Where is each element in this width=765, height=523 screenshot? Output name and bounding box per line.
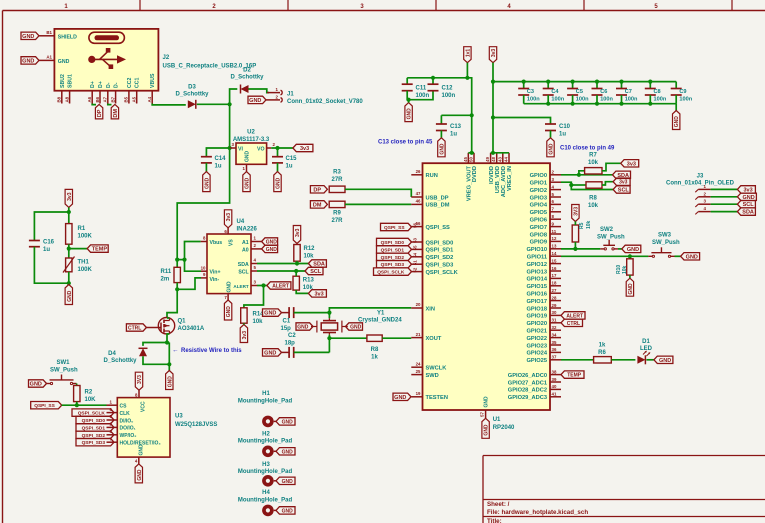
svg-text:GPIO26_ADC0: GPIO26_ADC0	[508, 373, 547, 379]
svg-text:44: 44	[504, 157, 509, 162]
svg-text:3v3: 3v3	[226, 213, 232, 222]
U3 pin 8 VCC with 3V3 label	[138, 390, 140, 397]
U4 pin 8 Vbus	[201, 241, 207, 243]
svg-text:USB_DP: USB_DP	[426, 195, 449, 201]
svg-text:GPIO10: GPIO10	[526, 247, 547, 253]
global label GND below TH1	[65, 285, 72, 305]
wire crystal bottom to XOUT net	[328, 335, 330, 353]
svg-text:GND: GND	[282, 479, 294, 485]
svg-text:SDA: SDA	[742, 210, 754, 216]
svg-text:R12: R12	[304, 246, 316, 252]
node R11 top branch	[175, 258, 179, 262]
svg-text:R9: R9	[333, 211, 341, 217]
svg-text:GPIO28_ADC2: GPIO28_ADC2	[508, 388, 547, 394]
node 3v3 branch	[67, 210, 71, 214]
svg-text:GPIO17: GPIO17	[526, 299, 547, 305]
global label GND at crystal right	[346, 323, 363, 330]
resistor R13 10k SCL pullup	[293, 276, 299, 290]
svg-text:XOUT: XOUT	[426, 336, 442, 342]
svg-text:MountingHole_Pad: MountingHole_Pad	[238, 469, 293, 475]
global label 3v3 above R1	[65, 189, 72, 207]
svg-text:QSPI_SD3: QSPI_SD3	[82, 440, 106, 446]
svg-text:GND: GND	[139, 444, 145, 456]
svg-text:LED: LED	[640, 346, 653, 352]
svg-text:GPIO13: GPIO13	[526, 269, 547, 275]
svg-text:D-: D-	[106, 82, 112, 88]
node C1 crystal junction	[327, 311, 331, 315]
diode D4 D_Schottky flyback	[139, 348, 147, 356]
svg-text:28: 28	[552, 295, 557, 300]
svg-text:VO: VO	[257, 147, 265, 153]
svg-text:10k: 10k	[586, 220, 592, 229]
wire GPIO1 to SCL	[561, 182, 613, 189]
svg-text:GPIO7: GPIO7	[530, 225, 547, 231]
svg-text:56: 56	[413, 223, 418, 228]
svg-text:GPIO12: GPIO12	[526, 262, 547, 268]
global label QSPI_SD1 at U1	[377, 246, 412, 253]
svg-text:GND: GND	[226, 306, 232, 318]
svg-text:11: 11	[552, 229, 557, 234]
svg-text:CTRL: CTRL	[128, 326, 141, 332]
U4 pin 3 ALERT	[251, 285, 257, 287]
global label SDA from U4	[308, 260, 326, 267]
global label SCL from U4	[305, 267, 323, 274]
svg-text:GND: GND	[394, 395, 406, 401]
global label GND at SW3	[681, 253, 700, 260]
svg-text:ALERT: ALERT	[272, 284, 289, 290]
svg-text:GND: GND	[407, 108, 413, 120]
svg-text:C8: C8	[654, 89, 661, 95]
svg-text:39: 39	[552, 377, 557, 382]
wire R7 to 3v3	[602, 163, 621, 171]
svg-text:GPIO4: GPIO4	[530, 203, 548, 209]
svg-text:R8: R8	[589, 196, 597, 202]
svg-text:GPIO1: GPIO1	[530, 181, 547, 187]
svg-text:10k: 10k	[304, 254, 315, 260]
svg-text:10K: 10K	[85, 397, 97, 403]
svg-text:1u: 1u	[286, 164, 293, 170]
power label 3v3 top	[489, 47, 496, 63]
svg-text:GPIO27_ADC1: GPIO27_ADC1	[508, 380, 547, 386]
connector J1 Conn_01x02_Socket	[267, 92, 280, 94]
J2 bottom pins SBU2 SBU1 D+ D+ D- D- CC2 CC1 VBUS	[61, 91, 63, 104]
wire R11 top to Vbus pin and Vin+	[177, 259, 184, 261]
svg-text:SWD: SWD	[426, 373, 439, 379]
node R11 bottom branch	[175, 287, 179, 291]
svg-text:100n: 100n	[576, 97, 589, 103]
svg-text:IOVDD: IOVDD	[489, 166, 495, 184]
svg-text:GND: GND	[282, 508, 294, 514]
svg-text:GPIO6: GPIO6	[530, 218, 547, 224]
svg-text:AO3401A: AO3401A	[178, 326, 205, 332]
node R8 on GPIO1	[569, 183, 573, 187]
U4 pin 6 VS with 3v3 label	[227, 228, 229, 234]
U1 top power pins	[467, 153, 469, 163]
svg-text:GPIO14: GPIO14	[526, 277, 547, 283]
svg-text:GPIO8: GPIO8	[530, 232, 547, 238]
svg-text:Resistive Wire to this: Resistive Wire to this	[181, 348, 242, 354]
svg-text:GND: GND	[264, 311, 276, 317]
svg-text:VBUS: VBUS	[150, 73, 156, 88]
svg-text:10k: 10k	[588, 203, 599, 209]
svg-text:GND: GND	[22, 34, 34, 40]
svg-text:←: ←	[172, 347, 179, 354]
svg-text:100n: 100n	[625, 97, 638, 103]
svg-text:B5: B5	[124, 96, 129, 102]
wire R13 to 3v3	[296, 290, 308, 293]
svg-text:A7: A7	[103, 96, 108, 102]
global label QSPI_SD3 at flash	[76, 439, 114, 446]
svg-text:QSPI_SD3: QSPI_SD3	[426, 263, 454, 269]
svg-text:35: 35	[552, 340, 557, 345]
wire VBUS node up to D2	[230, 89, 238, 104]
svg-text:MountingHole_Pad: MountingHole_Pad	[238, 498, 293, 504]
svg-text:GPIO3: GPIO3	[530, 195, 547, 201]
svg-text:GPIO0: GPIO0	[530, 173, 547, 179]
U4 pin 1 A1 to GND label	[251, 241, 262, 243]
wire SW2 to GND	[618, 248, 622, 250]
svg-text:GND: GND	[264, 350, 276, 356]
capacitor C14 1u	[201, 156, 212, 158]
svg-text:14: 14	[552, 251, 557, 256]
svg-text:GND: GND	[484, 424, 490, 436]
global label GND at J2 SHIELD	[21, 32, 39, 39]
wire R2 to QSPI_SS net	[76, 402, 78, 406]
svg-text:GPIO5: GPIO5	[530, 210, 547, 216]
svg-text:100n: 100n	[442, 93, 456, 99]
svg-text:C3: C3	[527, 89, 534, 95]
U1 right GPIO pins	[550, 174, 561, 176]
resistor R11 2m shunt	[174, 267, 180, 282]
connector J2 USB_C_Receptacle_USB2.0_16P	[54, 29, 158, 91]
svg-text:27: 27	[552, 288, 557, 293]
svg-text:57: 57	[480, 412, 485, 417]
svg-text:A5: A5	[132, 96, 137, 102]
global label GND at LED	[654, 356, 673, 363]
wire D2 to J1 pin 1	[249, 89, 270, 93]
wire D- pins to DM label	[108, 104, 112, 105]
global label GND at J1 pin 2	[248, 96, 266, 103]
svg-text:53: 53	[413, 238, 418, 243]
svg-text:A6: A6	[87, 96, 92, 102]
resistor R7 10k SDA pullup	[585, 168, 602, 174]
svg-text:AMS1117-3.3: AMS1117-3.3	[233, 137, 270, 143]
svg-text:C10 close to pin 49: C10 close to pin 49	[560, 146, 615, 152]
global label GND at SW2	[622, 245, 641, 252]
svg-text:VI: VI	[238, 147, 243, 153]
svg-text:R6: R6	[598, 350, 606, 356]
svg-text:C15: C15	[286, 156, 298, 162]
node R10 on GPIO11	[628, 254, 632, 258]
svg-text:SHIELD: SHIELD	[58, 35, 77, 41]
svg-text:USB_C_Receptacle_USB2.0_16P: USB_C_Receptacle_USB2.0_16P	[163, 64, 257, 70]
svg-text:GND: GND	[628, 283, 634, 295]
svg-text:Conn_01x02_Socket_V780: Conn_01x02_Socket_V780	[287, 99, 363, 105]
svg-text:1u: 1u	[559, 132, 566, 138]
svg-text:GPIO15: GPIO15	[526, 284, 547, 290]
global label 3v3 below R13	[308, 290, 326, 297]
svg-text:GPIO29_ADC3: GPIO29_ADC3	[508, 395, 547, 401]
svg-text:GND: GND	[67, 290, 73, 302]
svg-text:D-: D-	[114, 82, 120, 88]
svg-text:Sheet: /: Sheet: /	[487, 501, 510, 508]
capacitor C15 1u	[277, 148, 279, 157]
svg-text:C12: C12	[442, 86, 454, 92]
node R5 on GPIO10	[573, 247, 577, 251]
capacitor C10 1u	[545, 123, 556, 125]
svg-text:CC1: CC1	[135, 78, 141, 88]
svg-text:U1: U1	[493, 417, 501, 423]
decoupling capacitors C3-C9 100n	[523, 82, 525, 89]
svg-text:GND: GND	[549, 143, 555, 155]
svg-text:27R: 27R	[331, 218, 343, 224]
svg-text:XIN: XIN	[426, 306, 435, 312]
svg-text:34: 34	[552, 332, 557, 337]
svg-text:20: 20	[416, 302, 421, 307]
svg-text:13: 13	[552, 244, 557, 249]
wire C16 bottom join	[34, 247, 68, 284]
svg-text:45: 45	[463, 157, 468, 162]
resistor R1 100K	[66, 224, 72, 245]
wire GPIO11 to SW3	[561, 255, 648, 257]
wire TH1 to GND	[68, 272, 70, 285]
wire GPIO1 through R8 pullup	[571, 184, 586, 186]
svg-text:3v3: 3v3	[315, 291, 324, 297]
svg-text:A8: A8	[64, 96, 69, 102]
svg-text:GND: GND	[484, 396, 490, 408]
wire ALERT to label	[257, 285, 267, 287]
wire LED to GND	[646, 359, 654, 361]
resistor R8 1k at XOUT	[367, 335, 382, 341]
sheet frame border	[3, 10, 765, 12]
node XOUT branch	[327, 336, 331, 340]
svg-text:QSPI_SS: QSPI_SS	[34, 403, 55, 409]
J2 pin SHIELD B1	[39, 35, 54, 37]
svg-text:50: 50	[469, 157, 474, 162]
node R12 on SDA	[295, 261, 299, 265]
svg-text:MountingHole_Pad: MountingHole_Pad	[238, 439, 293, 445]
svg-text:18p: 18p	[285, 341, 296, 347]
svg-text:SW_Push: SW_Push	[652, 240, 680, 246]
capacitor C11 100n	[406, 78, 408, 84]
U1 bottom GND pin 57	[485, 410, 487, 418]
svg-text:3v3: 3v3	[619, 180, 628, 186]
svg-text:GND: GND	[282, 419, 294, 425]
svg-text:J3: J3	[697, 174, 704, 180]
svg-text:QSPI_SS: QSPI_SS	[384, 225, 405, 231]
svg-text:C10: C10	[559, 124, 571, 130]
svg-text:VCC: VCC	[141, 401, 147, 412]
svg-text:GND: GND	[659, 358, 671, 364]
wire R9 to USB_DM	[345, 203, 411, 205]
svg-text:SWCLK: SWCLK	[426, 366, 448, 372]
svg-text:27R: 27R	[331, 177, 343, 183]
wire R8 to 3v3	[602, 182, 613, 185]
svg-text:GND: GND	[276, 177, 282, 189]
svg-text:B8: B8	[57, 96, 62, 102]
global label QSPI_SCLK at U1	[374, 268, 412, 275]
svg-text:1v1: 1v1	[465, 49, 471, 58]
global label GND below U4	[224, 300, 231, 320]
svg-text:SCL: SCL	[618, 188, 630, 194]
resistor R12 10k SDA pullup	[294, 245, 300, 262]
J2 USB logo	[89, 32, 125, 43]
global label QSPI_SD0 at U1	[377, 238, 412, 245]
svg-text:GND: GND	[627, 247, 639, 253]
svg-text:TH1: TH1	[78, 260, 90, 266]
title block	[483, 455, 765, 457]
wire heater right side	[168, 343, 170, 371]
svg-text:C4: C4	[551, 89, 559, 95]
svg-text:GND: GND	[22, 58, 34, 64]
global label QSPI_SS at flash	[31, 402, 62, 409]
svg-text:SBU1: SBU1	[68, 74, 74, 88]
svg-text:VS: VS	[228, 239, 234, 246]
U3 pin 4 GND	[138, 457, 140, 464]
wire C10 rail	[493, 118, 551, 125]
svg-text:3v3: 3v3	[295, 228, 301, 237]
wire R10 to GND	[629, 275, 631, 278]
svg-text:INA226: INA226	[237, 227, 258, 233]
resistor R6 1k LED series	[594, 357, 612, 363]
global label GND at J3 pin 2	[737, 193, 756, 200]
global label GND at J2 GND pin	[21, 57, 39, 64]
wire VI to C14	[206, 148, 229, 157]
svg-text:SW2: SW2	[600, 227, 614, 233]
wire QSPI_SS to flash CS	[62, 404, 107, 406]
svg-text:1k: 1k	[599, 343, 606, 349]
wire cap bank bottom rail	[524, 103, 677, 105]
svg-text:Q1: Q1	[178, 319, 187, 325]
global label SDA at GPIO0	[613, 171, 631, 178]
wire GPIO25 to R6	[561, 359, 594, 361]
wire XOUT through R8	[329, 337, 367, 339]
svg-text:3v3: 3v3	[627, 161, 636, 167]
svg-text:3v3: 3v3	[242, 331, 248, 340]
global label QSPI_SS at U1	[381, 223, 412, 230]
svg-text:H4: H4	[262, 490, 270, 496]
global label DP below J2	[95, 104, 102, 119]
svg-text:QSPI_SD1: QSPI_SD1	[426, 248, 454, 254]
global label QSPI_SD3 at U1	[377, 261, 412, 268]
svg-text:47: 47	[416, 191, 421, 196]
svg-text:25: 25	[416, 369, 421, 374]
svg-text:100n: 100n	[527, 97, 540, 103]
svg-text:100n: 100n	[416, 93, 430, 99]
U1 left pins	[411, 174, 422, 176]
svg-text:GND: GND	[282, 449, 294, 455]
node Vbus/Vin+ branch	[182, 258, 186, 262]
svg-text:USB_VDD: USB_VDD	[495, 166, 501, 193]
global label 3v3 at U2 output	[293, 144, 313, 151]
svg-text:49: 49	[485, 157, 490, 162]
global label DM below J2	[111, 104, 118, 119]
wire GPIO0 to SDA	[561, 174, 613, 176]
svg-text:100n: 100n	[654, 97, 667, 103]
svg-text:10k: 10k	[253, 319, 264, 325]
svg-text:DP: DP	[313, 187, 321, 193]
svg-text:100K: 100K	[78, 234, 93, 240]
svg-text:21: 21	[416, 332, 421, 337]
node ALERT branch	[261, 283, 265, 287]
wire 3v3 vertical	[492, 63, 494, 153]
svg-text:D_Schottky: D_Schottky	[175, 92, 209, 98]
svg-text:D3: D3	[188, 85, 196, 91]
svg-text:D_Schottky: D_Schottky	[103, 358, 137, 364]
wire heater loop left to D4	[143, 343, 167, 346]
node C13 on 1v1	[470, 113, 474, 117]
svg-text:SW1: SW1	[57, 360, 71, 366]
svg-text:C13: C13	[450, 124, 462, 130]
svg-text:TEMP: TEMP	[567, 373, 582, 379]
svg-text:DM: DM	[113, 109, 119, 118]
svg-text:3v3: 3v3	[491, 49, 497, 58]
svg-text:J1: J1	[287, 92, 294, 98]
capacitor C16 1u	[29, 240, 40, 242]
svg-text:H3: H3	[262, 462, 270, 468]
svg-text:B1: B1	[46, 30, 52, 35]
svg-text:GPIO25: GPIO25	[526, 358, 547, 364]
global label 3v3 below R14	[240, 325, 247, 343]
global label QSPI_SD2 at U1	[377, 253, 412, 260]
global label TEMP at GPIO26	[561, 371, 584, 378]
svg-text:GPIO21: GPIO21	[526, 329, 547, 335]
svg-text:B6: B6	[95, 96, 100, 102]
U4 pin 5 SCL	[251, 270, 257, 272]
global label ALERT from U4	[267, 282, 291, 289]
svg-text:C7: C7	[625, 89, 632, 95]
svg-text:D2: D2	[243, 68, 251, 74]
svg-text:3v3: 3v3	[67, 192, 73, 201]
global label GND at crystal left	[296, 323, 313, 330]
wire D3 to VBUS node	[197, 103, 230, 105]
svg-text:GND: GND	[30, 382, 42, 388]
svg-text:R3: R3	[333, 170, 341, 176]
svg-text:46: 46	[416, 199, 421, 204]
svg-text:C14: C14	[215, 156, 227, 162]
thermistor TH1 100K	[66, 258, 72, 272]
op-amp U4 INA226 body	[207, 234, 251, 294]
global label GND at C2	[263, 349, 282, 356]
svg-text:GPIO22: GPIO22	[526, 336, 547, 342]
svg-text:41: 41	[552, 392, 557, 397]
svg-text:SCL: SCL	[238, 269, 249, 275]
global label GND below C11	[405, 103, 412, 122]
svg-text:DI/IO₀: DI/IO₀	[120, 418, 134, 424]
U1 QSPI data pins with labels	[412, 241, 423, 243]
global label QSPI_SD0 at flash	[76, 416, 114, 423]
svg-text:TEMP: TEMP	[92, 247, 108, 253]
memory U3 W25Q128JVSS body	[117, 398, 170, 458]
svg-text:1u: 1u	[43, 247, 50, 253]
wire to GND of cap bank	[675, 104, 677, 111]
wire SDA to label	[257, 263, 308, 265]
svg-text:D_Schottky: D_Schottky	[230, 75, 264, 81]
wire C13 top rail	[441, 114, 471, 116]
svg-text:15: 15	[552, 258, 557, 263]
svg-text:U4: U4	[237, 219, 245, 225]
wire R11 bottom to Vin-	[176, 283, 178, 290]
svg-text:WP/IO₂: WP/IO₂	[120, 433, 137, 439]
wire XIN from crystal to U1	[329, 308, 411, 318]
U4 pin 10 Vin+	[201, 270, 207, 272]
svg-text:QSPI_SCLK: QSPI_SCLK	[426, 270, 459, 276]
svg-text:DO/IO₁: DO/IO₁	[120, 426, 136, 432]
global label SCL at J3 pin 3	[737, 201, 755, 208]
wire IOVDD pins tie	[491, 152, 509, 154]
svg-text:R2: R2	[85, 390, 93, 396]
global label ALERT at GPIO19	[561, 312, 585, 319]
